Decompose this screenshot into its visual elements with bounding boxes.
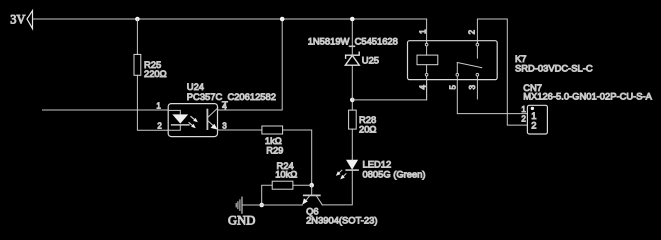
wire R28 top to node (351, 100, 353, 110)
relay coil (417, 43, 438, 76)
relay switch common pin5 (456, 63, 482, 76)
svg-text:MX126-5.0-GN01-02P-CU-S-A: MX126-5.0-GN01-02P-CU-S-A (523, 91, 652, 102)
resistor R25 (134, 54, 167, 79)
wire U24 pin3 to R29 (218, 129, 262, 131)
svg-text:5: 5 (449, 85, 458, 90)
transistor Q6 (302, 185, 377, 225)
op-amp U24 optocoupler PC357C (168, 81, 276, 137)
wire relay pin4 (426, 76, 428, 100)
svg-text:20Ω: 20Ω (359, 124, 376, 135)
connector CN7 (523, 82, 652, 134)
wire node to relay pin4 (352, 80, 426, 100)
svg-text:R29: R29 (266, 145, 283, 156)
node junction diode/R28/relay (350, 98, 355, 103)
svg-text:2: 2 (521, 115, 526, 124)
svg-text:1N5819W_C5451628: 1N5819W_C5451628 (308, 35, 398, 46)
U24 internal light arrows (189, 117, 198, 129)
node junction emitter/GND (259, 203, 264, 208)
relay pin2 contact (476, 43, 479, 58)
svg-text:SRD-03VDC-SL-C: SRD-03VDC-SL-C (515, 63, 593, 74)
svg-text:0805G (Green): 0805G (Green) (363, 169, 426, 180)
resistor R29 (262, 126, 284, 156)
wire relay pin2 to CN7 pin2 (477, 19, 527, 125)
wire Q6 collector to LED12 (322, 170, 352, 205)
LED12 (336, 159, 426, 180)
resistor R28 (349, 110, 377, 135)
wire R25 top lead (136, 19, 138, 54)
wire GND to Q6 emitter (242, 204, 302, 206)
U24 internal LED (168, 110, 189, 130)
svg-text:220Ω: 220Ω (144, 68, 167, 79)
wire U24 pin4 to top rail (218, 19, 283, 110)
power flag 3V (10, 11, 32, 29)
diode U25 1N5819W (308, 19, 398, 100)
wire R29 to Q6 base node (283, 130, 312, 185)
svg-text:10kΩ: 10kΩ (275, 168, 297, 179)
wire LED12 anode to R28 (351, 129, 353, 160)
wire relay pin3 stub (476, 76, 478, 99)
node junction top of R25 (135, 17, 140, 22)
relay pin3 contact (476, 73, 479, 76)
wire R25 bottom to U24 pin2 (137, 75, 168, 130)
svg-text:2: 2 (468, 29, 477, 34)
svg-text:GND: GND (228, 213, 255, 227)
svg-text:3: 3 (468, 85, 477, 90)
node junction Q6 base (309, 183, 314, 188)
ground (228, 197, 255, 227)
svg-text:U25: U25 (362, 55, 379, 66)
svg-text:2: 2 (531, 119, 536, 130)
svg-text:2: 2 (157, 122, 162, 131)
svg-text:3V: 3V (10, 13, 25, 27)
svg-text:1: 1 (521, 105, 526, 114)
U24 internal phototransistor (207, 108, 217, 130)
resistor R24 (262, 160, 312, 205)
svg-text:1: 1 (156, 102, 161, 111)
wire U24 pin1 stub (43, 109, 169, 111)
wire relay pin1 (426, 19, 428, 43)
svg-text:3: 3 (222, 121, 227, 130)
node junction pin4 riser on rail (280, 17, 285, 22)
wire top rail 3V (33, 18, 427, 20)
svg-text:2N3904(SOT-23): 2N3904(SOT-23) (306, 215, 377, 226)
node junction diode top on rail (350, 17, 355, 22)
svg-text:1: 1 (418, 29, 427, 34)
wire relay pin5 to CN7 pin1 (457, 76, 527, 114)
relay K7 (408, 41, 593, 80)
svg-text:PC357C_C20612582: PC357C_C20612582 (187, 91, 276, 102)
svg-text:4: 4 (222, 102, 227, 111)
svg-text:4: 4 (418, 85, 427, 90)
